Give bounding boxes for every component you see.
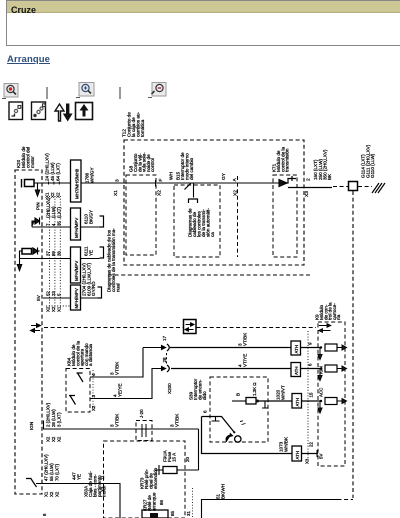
- K9 serial data arrows: [319, 324, 331, 333]
- connector MH7/MH5/MH8: [71, 160, 82, 202]
- svg-text:11: 11: [100, 475, 105, 480]
- wire K71 X3-2 output: [288, 187, 332, 189]
- svg-text:IGN: IGN: [29, 422, 34, 430]
- svg-text:5V: 5V: [319, 454, 324, 459]
- svg-text:37: 37: [46, 251, 51, 256]
- svg-text:86: 86: [159, 500, 164, 505]
- S39 resistor 1.3K: [232, 400, 246, 402]
- wire row D: [43, 297, 71, 299]
- row B arrow symbol: [32, 218, 40, 228]
- relay KR27 box: [142, 510, 168, 518]
- svg-text:X2: X2: [51, 306, 56, 312]
- svg-text:ca: ca: [210, 232, 215, 237]
- dashed boundary line under T12: [108, 274, 312, 276]
- K9 row1 internal: arrow down IGN and load: [318, 348, 322, 360]
- svg-text:X1: X1: [113, 190, 119, 196]
- bracket row C: [100, 247, 104, 258]
- serial data dashed bus right: [197, 327, 317, 329]
- svg-text:X2: X2: [50, 192, 55, 198]
- svg-text:2 (2H0,LXV): 2 (2H0,LXV): [46, 402, 51, 427]
- svg-text:WH/VT: WH/VT: [280, 385, 285, 400]
- module K20 ECM box: [15, 170, 42, 494]
- svg-text:X2: X2: [46, 306, 51, 312]
- svg-text:ATH: ATH: [295, 398, 300, 406]
- inline connector X200 pin17: [143, 346, 166, 350]
- toolbar separator 1: [46, 87, 48, 99]
- wire IGN row: [44, 421, 199, 430]
- svg-text:23: 23: [51, 291, 56, 296]
- wire down to fuse: [198, 429, 200, 470]
- switch B15 blade: [185, 183, 192, 190]
- svg-text:6: 6: [308, 363, 313, 366]
- wire VT/BK to K9 row1: [170, 347, 291, 349]
- svg-text:22: 22: [309, 442, 314, 447]
- svg-text:F: F: [158, 179, 164, 182]
- connector ATH row1: [291, 341, 301, 355]
- arrow into K71: [279, 180, 287, 187]
- svg-text:VT/BK: VT/BK: [242, 332, 247, 346]
- svg-text:64 (LXT): 64 (LXT): [55, 163, 60, 181]
- wire K84 pin3 YE/YE: [90, 369, 163, 399]
- svg-text:5V: 5V: [36, 294, 42, 301]
- svg-text:MFH/MPV: MFH/MPV: [74, 288, 79, 308]
- svg-text:70 (LXT): 70 (LXT): [54, 463, 59, 481]
- toolbar icon: connector locator 1: [9, 102, 23, 120]
- svg-text:MH7/MH5/MH8: MH7/MH5/MH8: [75, 168, 80, 199]
- module K9 BCM box: [318, 322, 345, 466]
- K9 row1 input: [301, 347, 322, 349]
- switch S39 box: [210, 377, 268, 442]
- svg-text:motor: motor: [30, 156, 35, 168]
- svg-text:X3: X3: [305, 458, 310, 464]
- wire B15 stub down: [193, 183, 195, 198]
- svg-text:31: 31: [186, 511, 191, 516]
- svg-text:encendido: encendido: [153, 467, 158, 489]
- K9 row2 input: [301, 368, 322, 370]
- svg-text:X2: X2: [49, 491, 54, 497]
- svg-text:nual: nual: [116, 283, 121, 292]
- inline connector X200 pin28: [158, 367, 166, 371]
- pin tick G8 exit: [155, 180, 157, 187]
- bracket to automatic transmission diagrams: [189, 199, 198, 203]
- connector MFH/MPV row B: [71, 208, 81, 240]
- toolbar icon: swap arrows: [55, 104, 72, 121]
- dashed inner boundary vertical: [237, 176, 239, 257]
- coil and diode inside K20 row C: [20, 251, 23, 259]
- svg-text:PIN: PIN: [36, 202, 41, 210]
- switch B15 box: [174, 185, 220, 257]
- dotted connector line row D: [46, 305, 70, 307]
- switch inside K20 bottom: [26, 478, 37, 487]
- svg-text:X2: X2: [55, 192, 60, 198]
- wire 447 YE row: [36, 484, 120, 518]
- svg-text:38: 38: [56, 251, 61, 256]
- svg-text:8: 8: [42, 513, 47, 516]
- wire VT/YE to K9 row2: [171, 368, 291, 370]
- svg-text:BK/GY: BK/GY: [88, 210, 93, 224]
- svg-text:X2: X2: [46, 436, 51, 442]
- svg-text:BK/WH: BK/WH: [220, 484, 225, 499]
- wire 51 BK/WH ground run: [202, 500, 338, 518]
- K9 row1 junction dot: [320, 346, 322, 348]
- svg-text:X3: X3: [304, 191, 310, 197]
- connector ATH row3: [292, 394, 302, 409]
- svg-text:3: 3: [91, 395, 96, 398]
- toolbar zoom-out button: [148, 83, 166, 98]
- S39 spring return arrow: [226, 434, 233, 442]
- svg-text:X2: X2: [91, 405, 96, 411]
- wire 1020 WH/VT from S39: [257, 400, 292, 402]
- S39 wire to ATH bottom: [202, 417, 293, 454]
- svg-text:55 (LLW): 55 (LLW): [49, 463, 54, 481]
- svg-text:transmisión: transmisión: [285, 148, 290, 172]
- K84 switch 2: [69, 396, 76, 405]
- svg-text:X1: X1: [45, 192, 50, 198]
- svg-text:24 (2H0,LXV): 24 (2H0,LXV): [45, 153, 50, 181]
- svg-text:6: 6: [203, 410, 208, 413]
- svg-text:GY: GY: [221, 172, 227, 180]
- svg-text:BK: BK: [327, 173, 332, 180]
- svg-text:X1: X1: [56, 306, 61, 312]
- K9 row3 junction dot: [320, 400, 322, 402]
- svg-text:1.3K Ω: 1.3K Ω: [252, 382, 257, 396]
- svg-text:G110 (LLW): G110 (LLW): [370, 153, 375, 178]
- svg-text:X2: X2: [51, 436, 56, 442]
- dashed link X200: [166, 353, 168, 364]
- transmission T12 box: [124, 140, 304, 265]
- svg-text:ATH: ATH: [295, 451, 300, 459]
- svg-text:VT/BK: VT/BK: [174, 413, 179, 427]
- K9 row3 input: [302, 400, 322, 402]
- svg-text:ATH: ATH: [294, 367, 299, 375]
- svg-text:X2: X2: [56, 436, 61, 442]
- svg-text:VT/BK: VT/BK: [114, 413, 119, 427]
- connector MFH/MPV row C: [71, 247, 81, 283]
- K20 serial data bidirectional arrows: [31, 324, 41, 333]
- K9 row2 internal: arrow down ACC and load: [318, 369, 322, 381]
- svg-text:20: 20: [185, 457, 190, 462]
- wire row C to bracket: [81, 258, 100, 260]
- svg-text:MFH/MPV: MFH/MPV: [74, 261, 79, 281]
- inline junction box on data bus: [184, 320, 197, 334]
- svg-text:a distancia: a distancia: [88, 344, 93, 366]
- svg-text:MFH/MPV: MFH/MPV: [74, 218, 79, 238]
- K84 switch 1: [77, 373, 84, 382]
- wire row A from K20: [34, 182, 279, 184]
- svg-text:5: 5: [56, 293, 61, 296]
- svg-text:3: 3: [115, 179, 121, 182]
- svg-text:controles de la transmisión ma: controles de la transmisión ma-: [111, 228, 116, 292]
- down arrow row C: [17, 259, 21, 271]
- svg-text:WH/BK: WH/BK: [283, 436, 288, 452]
- svg-text:YE: YE: [88, 250, 93, 256]
- wire row C: [20, 258, 71, 260]
- wire ATH bottom to K9: [302, 453, 319, 455]
- resistor inside K20 row A: [21, 179, 23, 188]
- fuse block X50A box: [104, 441, 186, 518]
- svg-text:45 (LLW): 45 (LLW): [50, 162, 55, 181]
- svg-text:15 A: 15 A: [171, 452, 176, 462]
- ground wire down from square connector: [352, 191, 354, 498]
- ground G110/G111/G114 symbol: [372, 183, 385, 193]
- svg-text:dido: dido: [202, 391, 207, 400]
- svg-text:VT/YE: VT/YE: [242, 354, 247, 367]
- brackets and label diagramas transmision manual: [99, 215, 101, 217]
- connector MFH/MPV row D: [71, 285, 81, 310]
- S39 terminal marks: [240, 421, 246, 425]
- svg-text:X1: X1: [44, 491, 49, 497]
- svg-text:89: 89: [51, 251, 56, 256]
- svg-text:17: 17: [162, 335, 167, 341]
- svg-text:52: 52: [46, 291, 51, 296]
- serial data dashed bus left: [44, 327, 183, 329]
- K71 internal pin symbol: [283, 176, 296, 183]
- svg-text:arranque: arranque: [151, 492, 156, 511]
- module K71 TCM box: [273, 175, 297, 257]
- toolbar zoom-fit button: [2, 84, 18, 99]
- svg-text:3 (LXT): 3 (LXT): [56, 412, 61, 427]
- solenoid valve G8 box: [126, 175, 156, 255]
- toolbar separator 2: [119, 87, 121, 99]
- K9 row2 junction dot: [320, 367, 322, 369]
- wire K84 pin4 VT/BK: [90, 348, 143, 378]
- wire row B to bracket: [81, 226, 100, 228]
- toolbar icon: up arrow box: [76, 103, 93, 120]
- svg-text:YE/YE: YE/YE: [117, 383, 122, 397]
- svg-text:GY/RD: GY/RD: [91, 281, 96, 296]
- svg-text:ACC: ACC: [319, 388, 324, 397]
- inline connector square: [349, 182, 358, 191]
- svg-text:VT/BK: VT/BK: [114, 361, 119, 375]
- wire row B: [32, 226, 71, 228]
- connector ATH bottom: [292, 446, 302, 461]
- svg-text:del cambio: del cambio: [189, 157, 194, 180]
- toolbar icon: connector locator 2: [32, 102, 46, 120]
- svg-text:47 (2H0,LXV): 47 (2H0,LXV): [44, 454, 49, 481]
- svg-text:control: control: [150, 158, 155, 172]
- dashed wire to ground: [358, 186, 372, 188]
- svg-text:15: 15: [309, 392, 314, 397]
- svg-text:28 (LLW): 28 (LLW): [51, 409, 56, 427]
- connector ATH row2: [291, 363, 301, 377]
- svg-text:tomática: tomática: [140, 119, 145, 137]
- toolbar zoom-in button: [76, 83, 94, 98]
- svg-text:J-20: J-20: [139, 409, 144, 418]
- bracket row B: [100, 216, 104, 227]
- svg-text:WH: WH: [169, 171, 175, 180]
- svg-text:X3: X3: [100, 486, 105, 492]
- dotted K84 connector line: [92, 370, 94, 410]
- svg-text:4: 4: [91, 373, 96, 376]
- svg-text:WH/GY: WH/GY: [89, 167, 94, 183]
- dotted option leaders: [49, 196, 51, 306]
- S39 rotary switch: [202, 417, 235, 433]
- K9 dotted connector line: [307, 331, 309, 460]
- svg-text:2: 2: [306, 178, 312, 181]
- svg-text:85: 85: [170, 511, 175, 516]
- module K84 box: [66, 369, 90, 413]
- svg-text:X200: X200: [167, 383, 172, 394]
- node junction row A with down arrow PIN: [35, 183, 39, 196]
- svg-text:YE: YE: [76, 474, 81, 480]
- svg-text:X2: X2: [54, 491, 59, 497]
- bracket row D: [98, 287, 102, 298]
- wire row D to bracket: [81, 297, 98, 299]
- K9 row3 internal: [318, 401, 322, 413]
- svg-text:X2: X2: [157, 190, 163, 196]
- svg-text:B: B: [236, 393, 241, 396]
- svg-text:ATH: ATH: [294, 345, 299, 353]
- svg-text:ría: ría: [336, 314, 341, 320]
- dashed wire to inline connector: [333, 186, 348, 188]
